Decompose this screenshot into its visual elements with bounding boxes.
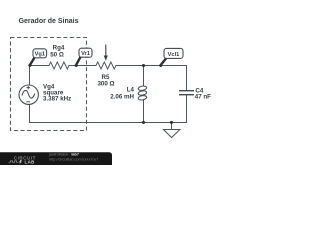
svg-text:47 nF: 47 nF [195, 94, 211, 101]
svg-text:Gerador de Sinais: Gerador de Sinais [19, 18, 79, 25]
svg-text:3.387 kHz: 3.387 kHz [43, 95, 71, 102]
svg-text:Vcl1: Vcl1 [168, 52, 180, 58]
svg-text:http://circuitlab.com/cxxx7cv7: http://circuitlab.com/cxxx7cv7 [49, 158, 98, 162]
svg-text:50 Ω: 50 Ω [50, 51, 64, 58]
svg-text:300 Ω: 300 Ω [97, 81, 114, 88]
svg-text:pedrobraov : lab7: pedrobraov : lab7 [49, 153, 79, 157]
svg-text:LAB: LAB [25, 160, 35, 165]
svg-text:Vg1: Vg1 [35, 52, 45, 58]
svg-text:Vr1: Vr1 [81, 51, 90, 57]
svg-text:2.06 mH: 2.06 mH [110, 94, 134, 101]
